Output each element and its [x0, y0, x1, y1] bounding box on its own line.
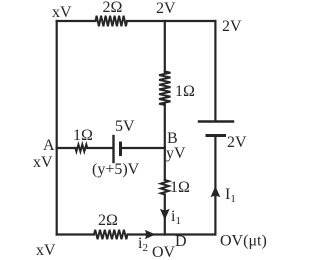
wire bottom left segment: [57, 233, 94, 235]
resistor 1ohm middle branch: [75, 145, 87, 152]
wire bottom right segment: [128, 233, 216, 235]
resistor 1ohm lower vertical: [161, 180, 169, 195]
svg-text:(y+5)V: (y+5)V: [92, 161, 140, 178]
wire right vertical lower: [214, 136, 216, 235]
svg-text:OV(μt): OV(μt): [220, 233, 267, 250]
svg-text:1Ω: 1Ω: [170, 179, 190, 196]
wire middle branch right: [122, 147, 165, 149]
svg-text:i1: i1: [171, 208, 181, 227]
battery 5V short plate: [119, 143, 122, 155]
wire right vertical upper: [214, 21, 216, 121]
svg-text:2Ω: 2Ω: [103, 0, 123, 16]
wire middle branch center: [87, 147, 112, 149]
resistor 2ohm top: [96, 16, 128, 27]
svg-text:xV: xV: [33, 154, 53, 171]
arrow current i2 right: [145, 230, 156, 239]
wire middle vertical upper: [164, 21, 166, 72]
svg-text:xV: xV: [52, 4, 72, 21]
svg-text:I1: I1: [225, 186, 236, 205]
svg-text:D: D: [175, 233, 187, 250]
wire middle vertical lower: [164, 195, 166, 235]
battery 2V long plate: [199, 120, 233, 122]
resistor 2ohm bottom: [94, 230, 128, 240]
wire middle branch left: [57, 147, 76, 149]
wire left vertical: [56, 21, 58, 235]
svg-text:A: A: [43, 137, 55, 154]
arrow current I1 up: [211, 186, 221, 197]
resistor 1ohm middle vertical: [159, 72, 170, 106]
wire top right segment: [127, 20, 215, 22]
battery 2V short plate: [207, 134, 225, 137]
svg-text:OV: OV: [152, 244, 176, 260]
svg-text:2V: 2V: [227, 134, 247, 151]
svg-text:5V: 5V: [115, 118, 135, 135]
svg-text:1Ω: 1Ω: [175, 83, 195, 100]
arrow current i1 down: [160, 209, 170, 220]
svg-text:2V: 2V: [222, 18, 242, 35]
wire middle vertical center: [164, 105, 166, 181]
battery 5V long plate: [112, 136, 114, 162]
svg-text:2Ω: 2Ω: [98, 212, 118, 229]
svg-text:1Ω: 1Ω: [73, 127, 93, 144]
wire top left segment: [57, 20, 96, 22]
svg-text:xV: xV: [36, 242, 56, 259]
svg-text:yV: yV: [166, 145, 186, 162]
svg-text:2V: 2V: [156, 0, 176, 17]
